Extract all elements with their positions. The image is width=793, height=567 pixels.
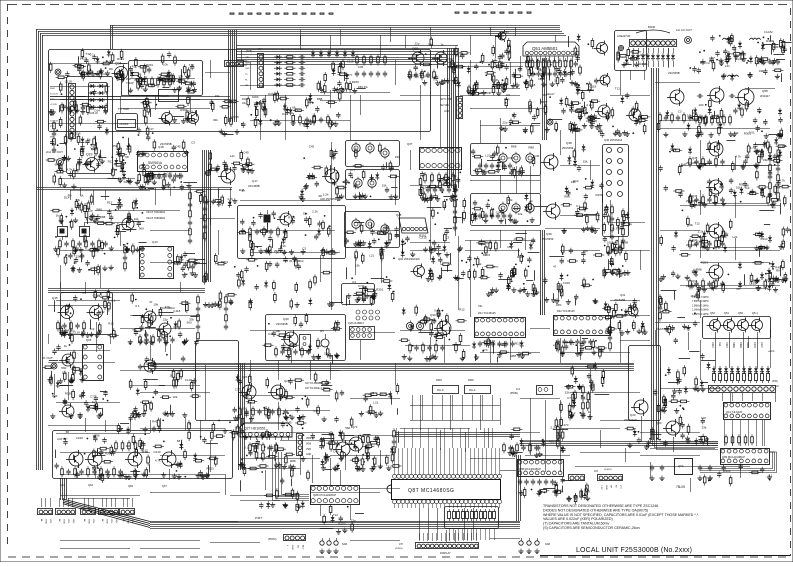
wire	[70, 322, 72, 336]
wire	[449, 448, 451, 474]
diode matrix diode	[274, 61, 282, 65]
resistor R	[284, 61, 295, 64]
svg-text:TAL05: TAL05	[160, 94, 169, 98]
wire	[633, 61, 635, 67]
transformer T1b	[368, 177, 376, 189]
parts cluster	[625, 427, 668, 449]
diode top diode	[327, 50, 331, 58]
parts cluster	[138, 171, 197, 191]
wire	[700, 165, 768, 167]
wire	[500, 398, 502, 425]
wire	[700, 288, 768, 290]
wire	[398, 448, 400, 474]
wire loop under Q89	[700, 452, 773, 469]
resistor column	[224, 294, 228, 330]
parts cluster	[116, 126, 195, 157]
resistor row	[61, 102, 86, 113]
diode matrix diode	[274, 77, 282, 81]
svg-text:10k: 10k	[163, 63, 168, 67]
wire	[458, 236, 460, 310]
wire	[545, 228, 600, 230]
svg-text:NAB: NAB	[545, 543, 550, 546]
resistor R	[761, 374, 764, 381]
wire	[732, 420, 734, 446]
svg-text:R88: R88	[511, 145, 517, 149]
svg-text:X2? 15.3000+2.5MHz: X2? 15.3000+2.5MHz	[305, 387, 330, 390]
wire long v1	[331, 142, 333, 310]
diode band diode	[631, 53, 635, 61]
resistor row	[526, 58, 573, 69]
wire	[420, 428, 422, 448]
wire	[100, 265, 102, 288]
wire	[510, 337, 512, 360]
svg-text:T12: T12	[615, 87, 621, 91]
wire	[700, 140, 702, 170]
jack 1st LO OUT	[685, 37, 692, 44]
svg-text:R88: R88	[100, 215, 106, 219]
parts cluster	[50, 193, 146, 257]
resistor R	[284, 78, 295, 81]
crystal X05	[264, 215, 271, 223]
parts cluster	[48, 58, 108, 116]
wire	[432, 504, 434, 508]
wire	[48, 334, 50, 344]
wire	[446, 530, 448, 542]
svg-text:Q51: Q51	[724, 311, 729, 315]
diode D quad	[742, 366, 746, 374]
IC Q89 MC14013BCP	[721, 449, 770, 465]
transistor Q50	[738, 320, 749, 331]
svg-text:470: 470	[68, 305, 73, 309]
wire	[660, 120, 700, 122]
wire	[470, 504, 472, 508]
wire	[54, 374, 56, 395]
diode D quad	[712, 366, 716, 374]
svg-text:T12: T12	[695, 222, 701, 226]
parts cluster	[50, 134, 102, 162]
svg-text:33k: 33k	[213, 118, 218, 122]
resistor column	[123, 244, 127, 271]
tick row 1	[230, 13, 234, 14]
section box top-left	[49, 50, 431, 132]
wire	[210, 440, 212, 472]
wire	[360, 340, 362, 360]
wire	[350, 398, 400, 400]
diode D quad	[754, 366, 758, 374]
transistor Q02	[414, 266, 425, 277]
wire	[520, 398, 560, 400]
resistor R	[453, 512, 456, 519]
wire	[428, 428, 430, 448]
diode top diode	[319, 50, 323, 58]
svg-text:Q28 2A16B13: Q28 2A16B13	[348, 322, 364, 325]
wire	[68, 498, 70, 507]
wire	[291, 350, 293, 363]
wire	[402, 504, 404, 508]
svg-text:(P4551): (P4551)	[395, 548, 403, 550]
svg-text:68: 68	[63, 330, 67, 334]
wire	[205, 72, 230, 74]
wire	[415, 448, 417, 474]
wire	[410, 405, 500, 407]
svg-text:2F OUT: 2F OUT	[42, 356, 53, 360]
svg-text:DA-4: DA-4	[469, 388, 476, 392]
svg-text:R88: R88	[317, 97, 323, 101]
wire	[476, 528, 478, 540]
svg-text:33k: 33k	[76, 255, 81, 259]
wire	[430, 175, 432, 260]
wire	[618, 236, 620, 250]
wire	[56, 350, 110, 352]
wire	[140, 392, 210, 394]
svg-text:R156: R156	[596, 193, 604, 197]
svg-text:LINEAR SW: LINEAR SW	[617, 35, 631, 38]
wire	[85, 222, 130, 224]
parts cluster	[690, 261, 781, 293]
svg-text:GND: GND	[45, 519, 47, 524]
wire	[419, 504, 421, 508]
svg-text:C45: C45	[309, 145, 315, 149]
wire	[580, 452, 640, 454]
svg-text:VOL: VOL	[92, 519, 94, 524]
wire loop to Q89	[657, 430, 719, 450]
wire	[580, 335, 582, 360]
wire	[452, 395, 454, 420]
wire	[735, 156, 737, 170]
wire	[495, 448, 497, 474]
svg-text:R301: R301	[773, 45, 781, 49]
resistor R	[466, 512, 469, 519]
wire	[410, 185, 455, 187]
wire	[530, 398, 532, 455]
svg-text:J23: J23	[594, 470, 599, 473]
svg-text:Q17: Q17	[252, 179, 258, 183]
svg-text:0.1: 0.1	[244, 446, 249, 450]
wire	[340, 30, 342, 45]
parts cluster	[172, 251, 207, 277]
transformer T1a	[354, 177, 362, 189]
svg-text:KEY10B: KEY10B	[440, 105, 449, 107]
wire	[536, 56, 538, 62]
wire	[490, 538, 520, 540]
transistor Q1C	[159, 323, 171, 335]
wire	[232, 50, 234, 60]
svg-text:C6L: C6L	[478, 305, 483, 308]
wire	[200, 521, 238, 523]
wire	[491, 504, 493, 508]
svg-text:15k: 15k	[581, 110, 586, 114]
section box rf switch	[129, 61, 203, 96]
svg-text:GND: GND	[88, 519, 90, 524]
wire	[150, 262, 200, 264]
wire	[458, 528, 460, 540]
transistor Q26	[271, 385, 285, 399]
wire	[56, 433, 150, 435]
diode top diode	[311, 50, 315, 58]
wire loop to Q86	[276, 452, 310, 499]
wire	[648, 48, 650, 53]
diode D908	[97, 105, 105, 109]
svg-text:TC: TC	[245, 74, 248, 76]
svg-text:Q52: Q52	[710, 311, 715, 315]
svg-text:B.117m2: B.117m2	[700, 62, 710, 65]
wire long v3	[205, 365, 207, 420]
svg-text:R212: R212	[711, 342, 714, 348]
wire	[135, 469, 137, 480]
capacitor C	[299, 83, 305, 87]
wire	[516, 166, 518, 193]
connector J audio x4	[56, 509, 76, 515]
resistor row	[689, 194, 725, 205]
parts cluster	[50, 380, 108, 418]
svg-text:25A: 25A	[126, 77, 131, 81]
wire	[80, 188, 82, 196]
wire	[395, 363, 397, 385]
resistor R	[725, 374, 728, 381]
svg-text:R88: R88	[517, 255, 523, 259]
resistor R	[767, 374, 770, 381]
wire bus ptt lower	[50, 96, 230, 98]
svg-text:22p: 22p	[415, 41, 420, 45]
parts cluster	[117, 415, 231, 434]
wire	[68, 498, 130, 500]
svg-text:4.7k: 4.7k	[735, 154, 741, 158]
wire	[240, 432, 330, 434]
svg-text:Q05: Q05	[86, 338, 92, 342]
resistor row	[518, 479, 555, 485]
wire	[500, 230, 502, 248]
svg-text:PL: PL	[245, 79, 248, 81]
wire	[560, 165, 600, 167]
parts cluster	[241, 465, 310, 513]
wire	[470, 240, 472, 317]
wire	[85, 418, 87, 432]
wire	[60, 99, 200, 101]
svg-text:R9: R9	[605, 308, 609, 312]
transistor Q13a	[122, 218, 134, 230]
wire	[340, 435, 395, 437]
svg-text:Tx12.5V: Tx12.5V	[50, 93, 59, 95]
section box Q16	[238, 206, 346, 259]
wire bus middle	[150, 363, 634, 365]
wire	[655, 82, 700, 84]
diode matrix diode	[274, 72, 282, 76]
wire	[394, 448, 396, 474]
wire	[123, 498, 125, 507]
wire	[320, 255, 322, 282]
wire	[41, 498, 43, 507]
wire	[70, 190, 72, 200]
resistor row	[556, 339, 593, 345]
svg-text:2.2k: 2.2k	[323, 193, 329, 197]
section box mic connector	[67, 77, 113, 174]
svg-text:R88: R88	[290, 459, 296, 463]
diode D41	[760, 187, 764, 195]
svg-text:D14: D14	[508, 156, 514, 160]
resistor R	[755, 374, 758, 381]
connector J band	[630, 40, 677, 47]
IC Q27 HD10551	[240, 423, 292, 437]
parts cluster	[519, 477, 572, 498]
transistor Q70	[349, 437, 363, 451]
capacitor C	[698, 465, 702, 471]
svg-text:VDM 8V: VDM 8V	[306, 438, 315, 440]
wire	[510, 62, 512, 84]
wire	[492, 395, 494, 420]
capacitor C	[299, 66, 305, 70]
wire bus center vertical	[447, 48, 449, 188]
resistor row	[531, 71, 568, 77]
IC Q87 MC146805G	[392, 480, 501, 500]
inductor L4P	[728, 75, 739, 77]
diode matrix diode	[274, 66, 282, 70]
resistor R	[493, 512, 496, 519]
svg-text:100: 100	[607, 241, 612, 245]
transformer T13c	[381, 223, 389, 235]
wire	[499, 448, 501, 474]
parts cluster	[73, 48, 128, 80]
svg-text:G30 25C5359: G30 25C5359	[320, 197, 337, 201]
wire	[717, 318, 719, 321]
svg-text:C118: C118	[173, 309, 180, 313]
wire	[610, 315, 650, 317]
diode D quad	[748, 366, 752, 374]
resistor row	[59, 238, 108, 249]
connector J13	[225, 61, 244, 67]
wire	[567, 56, 569, 62]
wire	[250, 402, 252, 423]
wire	[340, 470, 342, 486]
svg-text:0.1: 0.1	[111, 298, 116, 302]
wire	[530, 328, 550, 330]
parts cluster	[347, 286, 374, 307]
resistor row	[478, 341, 515, 347]
svg-text:R12: R12	[99, 310, 105, 314]
parts cluster	[43, 333, 85, 386]
diode top diode	[351, 50, 355, 58]
wire	[680, 285, 780, 287]
transformer T15	[512, 152, 520, 164]
transistor Q17	[221, 169, 235, 183]
connector J31 display	[416, 543, 479, 549]
parts cluster	[128, 293, 199, 346]
capacitor C	[355, 71, 359, 77]
wire	[461, 504, 463, 508]
svg-text:NAB: NAB	[342, 543, 347, 546]
wire	[428, 508, 430, 540]
parts cluster	[399, 305, 467, 362]
wire	[120, 96, 122, 113]
wire	[445, 533, 447, 541]
svg-text:GND: GND	[291, 545, 293, 550]
diode top diode	[335, 50, 339, 58]
wire	[395, 60, 397, 85]
svg-text:R203: R203	[338, 522, 346, 526]
svg-text:1k: 1k	[588, 410, 592, 414]
svg-text:AF: AF	[83, 519, 86, 522]
wire	[410, 150, 412, 170]
parts cluster	[108, 143, 157, 185]
wire	[572, 56, 574, 62]
parts cluster	[238, 439, 296, 471]
wire	[485, 528, 487, 540]
wire	[449, 533, 451, 541]
svg-text:DA-3: DA-3	[437, 388, 444, 392]
svg-text:1k: 1k	[64, 344, 68, 348]
svg-text:VOL: VOL	[131, 519, 133, 524]
svg-text:Q89 MC14013BCP: Q89 MC14013BCP	[722, 455, 745, 459]
wire	[130, 385, 200, 387]
diode band diode	[661, 53, 665, 61]
svg-text:R12: R12	[107, 201, 113, 205]
wire loop under Q89	[700, 452, 775, 471]
wire bus center-left vertical	[228, 30, 230, 122]
connector Q40 pins	[607, 148, 612, 153]
wire	[60, 178, 135, 180]
svg-text:D14: D14	[282, 112, 288, 116]
wire	[169, 469, 171, 480]
wire loop under Q89	[700, 452, 777, 473]
connector J22	[569, 475, 585, 481]
resistor row	[689, 156, 725, 167]
wire	[491, 448, 493, 474]
wire	[540, 175, 542, 193]
wire	[190, 96, 192, 112]
wire	[436, 428, 438, 448]
wire	[411, 504, 413, 508]
wire bus riser	[516, 455, 518, 521]
wire	[480, 395, 482, 430]
resistor column	[581, 384, 585, 417]
wire	[500, 175, 502, 193]
resistor column	[52, 120, 56, 153]
transformer T31	[416, 322, 423, 329]
diode D quad	[736, 366, 740, 374]
pad	[535, 541, 539, 545]
svg-text:Q61: Q61	[60, 483, 65, 487]
wire bus v7	[238, 363, 240, 470]
parts cluster	[114, 51, 190, 83]
wire	[320, 505, 322, 516]
svg-text:R45: R45	[233, 115, 239, 119]
transistor Q30	[437, 321, 451, 335]
parts cluster	[46, 115, 114, 169]
wire	[60, 548, 130, 550]
wire	[185, 418, 187, 430]
IC Q88 MC14011BCP	[518, 460, 564, 477]
transistor Q58	[738, 89, 754, 105]
wire	[470, 108, 545, 110]
svg-text:C45: C45	[243, 150, 249, 154]
svg-text:PTT: PTT	[80, 57, 86, 61]
parts cluster	[53, 161, 79, 189]
capacitor C	[383, 71, 387, 77]
resistor row	[424, 172, 455, 183]
svg-text:23C458B: 23C458B	[248, 184, 260, 188]
wire	[345, 458, 347, 470]
wire	[95, 210, 180, 212]
ground	[333, 549, 338, 554]
svg-text:+2mA: +2mA	[768, 350, 775, 353]
wire	[430, 27, 432, 40]
svg-text:R301: R301	[146, 63, 154, 67]
parts cluster	[703, 464, 773, 487]
wire	[455, 185, 457, 236]
wire	[577, 56, 579, 62]
svg-text:Q59: Q59	[412, 47, 419, 51]
svg-text:33k: 33k	[571, 180, 576, 184]
resistor row	[689, 278, 725, 289]
